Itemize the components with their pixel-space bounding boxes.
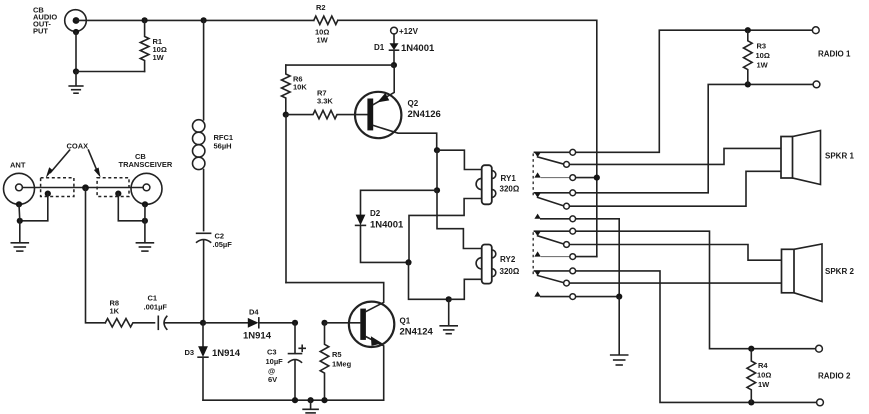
svg-text:D1: D1 [374, 43, 385, 52]
svg-text:10Ω: 10Ω [757, 371, 771, 380]
contact RY2 NC 2 [569, 282, 781, 284]
svg-text:1W: 1W [757, 61, 769, 70]
svg-text:320Ω: 320Ω [500, 185, 520, 194]
svg-text:10µF: 10µF [266, 357, 284, 366]
ground below CB transceiver [136, 221, 153, 251]
svg-text:2N4124: 2N4124 [400, 327, 434, 338]
svg-text:1N914: 1N914 [243, 331, 272, 342]
svg-text:10Ω: 10Ω [756, 51, 770, 60]
resistor R4 10ohm 1W [747, 349, 771, 403]
jack J3 CB transceiver [119, 152, 173, 207]
ground below CB audio jack [69, 72, 83, 94]
terminal RADIO 2 bottom [817, 399, 824, 406]
node junction coil ground [446, 296, 452, 302]
transistor Q2 2N4126 [355, 65, 441, 150]
inductor RFC1 56uH [193, 20, 234, 230]
svg-text:6V: 6V [268, 375, 277, 384]
svg-text:1Meg: 1Meg [332, 360, 352, 369]
wire RY1 coil bottom to D2 bottom [409, 199, 482, 263]
capacitor C3 10uF 6V [266, 320, 306, 404]
relay coil RY1 320ohm [476, 165, 520, 204]
node junction R4 bottom [748, 399, 754, 405]
ground below ANT [11, 221, 28, 251]
wire Q1 collector to R6/R7 node [285, 115, 287, 283]
label COAX with arrows [46, 142, 101, 178]
contact circles RY1/RY2 [564, 149, 576, 299]
node junction J1/R1 ground wire [73, 68, 145, 74]
wire coax tap down to detector input [86, 188, 106, 323]
svg-text:RY1: RY1 [501, 174, 517, 183]
wire contact r1 to RADIO1 top [576, 30, 813, 152]
node junction R6/R7/Q1 collector feed [283, 112, 289, 118]
coax shield box left [41, 178, 74, 197]
resistor R6 10K [281, 65, 307, 115]
svg-text:RADIO 2: RADIO 2 [818, 372, 851, 381]
diode D3 1N914 [185, 323, 241, 400]
contact RY2 NC 1 [569, 245, 781, 261]
node junction D1/R6/Q2 emitter [391, 62, 397, 68]
wire top rail from J1 to R2 [76, 19, 314, 21]
contact RY2 arm 1 [534, 231, 569, 244]
svg-text:10K: 10K [293, 83, 307, 92]
resistor R1 10ohm 1W [140, 17, 167, 71]
svg-text:1K: 1K [110, 307, 120, 316]
svg-text:1W: 1W [153, 53, 165, 62]
node junction D2 top [434, 187, 440, 193]
svg-text:COAX: COAX [67, 142, 89, 151]
label RADIO 2 [818, 372, 851, 381]
svg-text:ANT: ANT [10, 161, 26, 170]
contact RY2 NO 1 [534, 251, 596, 256]
wire +12V feed to R6 [286, 64, 394, 66]
wire ANT sleeve to ground [17, 204, 23, 224]
speaker SPKR 2 [782, 244, 855, 302]
node junction R4 top [748, 346, 754, 352]
svg-text:1N4001: 1N4001 [401, 43, 435, 54]
svg-text:3.3K: 3.3K [317, 97, 333, 106]
diode D4 1N914 [203, 308, 295, 342]
terminal +12V [391, 27, 419, 36]
relay coil RY2 320ohm [476, 245, 520, 284]
svg-text:D4: D4 [249, 308, 259, 317]
resistor R5 1Meg [320, 320, 351, 404]
contact RY1 NO 1 [534, 172, 596, 177]
node junction coax center tap [82, 184, 89, 191]
svg-text:PUT: PUT [33, 26, 48, 35]
svg-text:1W: 1W [758, 380, 770, 389]
svg-text:Q1: Q1 [400, 317, 411, 326]
svg-text:Q2: Q2 [408, 99, 419, 108]
svg-text:R5: R5 [332, 350, 342, 359]
relay RY2 contacts mechanical link (dashed) [532, 232, 534, 275]
resistor R8 1K [105, 299, 154, 327]
contact RY1 NC 2 [569, 171, 781, 206]
wire rail from R2 to right corner [338, 20, 597, 256]
terminal RADIO 1 top [812, 27, 819, 34]
terminal RADIO 1 bottom [813, 81, 820, 88]
svg-text:SPKR 1: SPKR 1 [825, 152, 854, 161]
relay RY1 contacts mechanical link (dashed) [532, 154, 534, 197]
wire D2 node to RY2 coil top [437, 190, 482, 248]
svg-text:C1: C1 [148, 294, 158, 303]
svg-text:R3: R3 [757, 42, 767, 51]
resistor R2 10ohm 1W (in rail) [314, 3, 338, 45]
contact RY1 NC 1 [569, 148, 781, 164]
svg-text:2N4126: 2N4126 [408, 109, 441, 120]
diode D1 1N4001 [374, 34, 435, 65]
contact RY2 arm 2 [534, 271, 569, 283]
wire contact r4 to RADIO1 bottom [576, 84, 814, 192]
resistor R3 10ohm 1W [744, 30, 770, 84]
node shield tap left [20, 191, 51, 221]
svg-text:1N4001: 1N4001 [370, 220, 404, 231]
svg-text:R4: R4 [758, 361, 768, 370]
ground bottom center [303, 397, 318, 413]
capacitor C1 .001uF [144, 294, 204, 330]
node junction audio rail / NO1 [594, 175, 600, 181]
wire bottom return [203, 399, 384, 401]
node junction Q2 collector / RY1 top [434, 147, 440, 153]
speaker SPKR 1 [781, 131, 854, 185]
wire ground node to RY2 coil bottom [449, 279, 482, 299]
svg-text:1N914: 1N914 [212, 348, 241, 359]
coax shield box right [97, 178, 129, 197]
svg-text:TRANSCEIVER: TRANSCEIVER [119, 160, 173, 169]
contact RY1 arm 2 [534, 193, 569, 206]
svg-text:.05µF: .05µF [213, 240, 233, 249]
node junction R3 bottom [745, 81, 751, 87]
ground below relay contacts [611, 297, 628, 365]
svg-text:320Ω: 320Ω [500, 267, 520, 276]
svg-text:+12V: +12V [399, 27, 419, 36]
wire Q2 collector to RY1 coil top [437, 150, 482, 169]
svg-text:R2: R2 [316, 3, 326, 12]
node junction R3 top [745, 27, 751, 33]
resistor R7 3.3K [286, 89, 368, 119]
wire J1 sleeve down to ground node [75, 32, 77, 72]
wire Q2 collector down to D2 node [436, 150, 438, 190]
node junction detector input [200, 320, 206, 326]
contact RY2 NO 2 [534, 291, 619, 296]
svg-text:C3: C3 [267, 348, 277, 357]
svg-text:D3: D3 [185, 348, 195, 357]
wire CB transceiver sleeve to ground [142, 204, 148, 224]
ground below D2/RY2 [440, 299, 457, 333]
node junction rail/RFC1 [201, 17, 207, 23]
svg-text:D2: D2 [370, 209, 381, 218]
jack J1 CB audio output [33, 5, 86, 35]
svg-text:RY2: RY2 [500, 255, 516, 264]
node shield tap right [115, 191, 145, 221]
svg-text:SPKR 2: SPKR 2 [825, 267, 854, 276]
wire ANT to CB transceiver center conductor [22, 187, 143, 189]
transistor Q1 2N4124 [286, 283, 433, 401]
wire D2 bottom to ground node [409, 262, 449, 299]
node junction NO ground tie [616, 294, 622, 300]
terminal RADIO 2 top [816, 345, 823, 352]
node junction D2 bottom [405, 259, 411, 265]
diode D2 1N4001 [356, 190, 437, 262]
jack J2 ANT [4, 161, 35, 208]
svg-text:56µH: 56µH [214, 142, 232, 151]
contact RY1 arm 1 [534, 152, 569, 164]
contact RY1 NO 2 [534, 214, 619, 297]
label RADIO 1 [818, 50, 851, 59]
svg-text:1W: 1W [317, 36, 329, 45]
svg-text:.001µF: .001µF [144, 303, 168, 312]
capacitor C2 .05uF [197, 232, 233, 323]
wire contact r10 to RADIO2 bottom [576, 271, 817, 403]
wire contact r7 to RADIO2 top [576, 231, 816, 349]
svg-text:RADIO 1: RADIO 1 [818, 50, 851, 59]
